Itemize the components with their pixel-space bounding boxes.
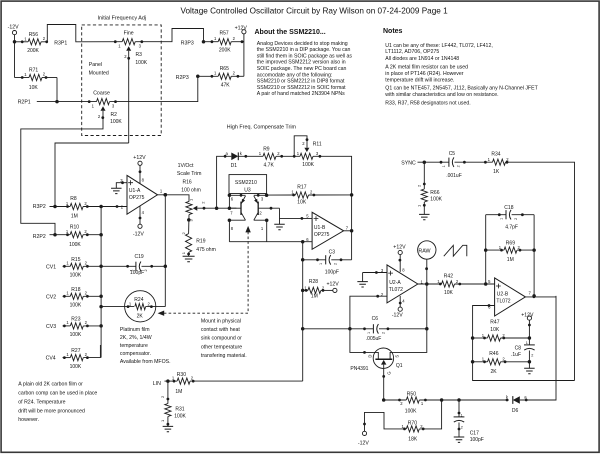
svg-text:contact with heat: contact with heat: [201, 327, 240, 333]
svg-text:1M: 1M: [71, 214, 78, 220]
op-amp U2-B TL072: [495, 278, 526, 316]
svg-text:drift will be more pronounced: drift will be more pronounced: [18, 408, 85, 414]
svg-text:R15: R15: [71, 257, 80, 263]
svg-text:the SSM2210 in a DIP package.: the SSM2210 in a DIP package. You can: [257, 47, 351, 53]
svg-text:R71: R71: [29, 68, 38, 74]
svg-text:SSM2210: SSM2210: [235, 180, 257, 186]
svg-text:18K: 18K: [408, 437, 418, 443]
svg-text:R27: R27: [71, 348, 80, 354]
svg-text:R46: R46: [489, 351, 498, 357]
svg-text:SSM2210 or SSM2212 in SOIC for: SSM2210 or SSM2212 in SOIC format: [257, 85, 346, 91]
wire U1-A pin3 to ground: [116, 183, 127, 189]
wire Fine wiper to R3P2: [55, 143, 129, 207]
svg-text:C19: C19: [135, 254, 144, 260]
svg-text:4.7K: 4.7K: [264, 163, 275, 169]
output node vertical / Q1 source: [394, 259, 427, 352]
svg-text:100K: 100K: [405, 408, 417, 414]
wire R16 wiper row: [197, 207, 236, 209]
svg-text:4.7pF: 4.7pF: [505, 224, 518, 230]
svg-text:Available from MFOS.: Available from MFOS.: [120, 359, 171, 365]
svg-text:CV3: CV3: [46, 324, 56, 330]
svg-text:1: 1: [367, 332, 371, 334]
op-amp U1-A OP275: [127, 175, 158, 214]
wire R2P3 down to Coarse pin3: [110, 76, 198, 101]
svg-text:Mounted: Mounted: [89, 70, 109, 76]
svg-text:CV2: CV2: [46, 294, 56, 300]
transistor pair U3 SSM2210: [229, 175, 267, 194]
svg-text:+12V: +12V: [393, 245, 406, 251]
svg-text:the improved SSM2212 version a: the improved SSM2212 version also in: [257, 60, 346, 66]
wire U2-B pin6 loop: [473, 306, 575, 381]
svg-text:.1uF: .1uF: [511, 352, 521, 358]
svg-text:still find them in SOIC packag: still find them in SOIC package as well …: [257, 53, 353, 59]
svg-text:Scale Trim: Scale Trim: [177, 171, 202, 177]
wire Fine pin3 jump over R3P3 label: [135, 29, 203, 42]
wire U1-B output: [344, 230, 352, 232]
svg-text:100K: 100K: [174, 414, 186, 420]
svg-text:R2P2: R2P2: [33, 234, 46, 240]
svg-text:All diodes are 1N914 or 1N4148: All diodes are 1N914 or 1N4148: [385, 56, 459, 62]
ground below R66: [419, 214, 430, 219]
svg-text:100pF: 100pF: [470, 437, 484, 443]
svg-text:CV1: CV1: [46, 264, 56, 270]
svg-text:U2-A: U2-A: [389, 280, 401, 286]
svg-text:100 ohm: 100 ohm: [181, 187, 200, 193]
svg-text:1V/Oct: 1V/Oct: [178, 163, 194, 169]
wire U3 emitters to U1-B pin6: [229, 241, 312, 243]
svg-text:1: 1: [319, 263, 323, 265]
svg-text:2: 2: [457, 165, 461, 167]
sawtooth waveform symbol: [444, 245, 467, 256]
wire U2-A output node: [418, 283, 442, 285]
svg-text:R2P3: R2P3: [176, 75, 189, 81]
ground at U2-A pin3: [357, 282, 368, 287]
svg-text:-12V: -12V: [8, 25, 19, 31]
svg-text:10K: 10K: [29, 85, 39, 91]
svg-text:1: 1: [129, 269, 133, 271]
svg-text:R42: R42: [444, 274, 453, 280]
wire Coarse wiper to R2P2: [21, 111, 103, 235]
svg-text:Voltage Controlled Oscillator: Voltage Controlled Oscillator Circuit by…: [181, 7, 449, 16]
wire -12V rail down: [14, 35, 16, 78]
svg-text:R19: R19: [196, 239, 205, 245]
op-amp U1-B OP275: [312, 212, 344, 249]
svg-text:R16: R16: [183, 180, 192, 186]
svg-text:D: D: [368, 355, 373, 358]
svg-text:OP275: OP275: [314, 232, 330, 238]
transistor Q1 PN4391 JFET: [373, 348, 393, 368]
svg-text:100K: 100K: [69, 242, 81, 248]
svg-text:1K: 1K: [493, 169, 500, 175]
svg-text:R23: R23: [71, 316, 80, 322]
svg-text:-12V: -12V: [392, 313, 403, 319]
svg-text:R31: R31: [175, 407, 184, 413]
svg-text:1M: 1M: [175, 389, 182, 395]
wire U1-B inverting node vertical: [302, 242, 304, 381]
svg-text:U3: U3: [244, 188, 251, 194]
svg-text:2K, 2%, 1/4W: 2K, 2%, 1/4W: [120, 335, 152, 341]
svg-text:compensator.: compensator.: [120, 351, 151, 357]
svg-text:R9: R9: [263, 147, 270, 153]
svg-text:of R24. Temperature: of R24. Temperature: [18, 399, 65, 405]
svg-text:47K: 47K: [221, 82, 231, 88]
svg-text:About the SSM2210...: About the SSM2210...: [255, 29, 326, 36]
svg-text:U1 can be any of these: LF442,: U1 can be any of these: LF442, TL072, LF…: [385, 43, 492, 49]
svg-text:sink compound or: sink compound or: [201, 336, 242, 342]
wire R16 wiper up to D1: [217, 156, 232, 208]
svg-text:10K: 10K: [490, 327, 500, 333]
wire R16 to R19: [188, 215, 190, 234]
svg-text:R18: R18: [71, 287, 80, 293]
wire C18/R69 box sides: [485, 215, 487, 284]
svg-text:Coarse: Coarse: [93, 90, 110, 96]
wire U1-A output: [158, 195, 190, 202]
wire U2-A pin3 to ground: [363, 272, 387, 274]
svg-text:100K: 100K: [302, 162, 314, 168]
svg-text:2: 2: [531, 353, 533, 357]
svg-text:-12V: -12V: [358, 440, 369, 446]
svg-text:R17: R17: [297, 185, 306, 191]
svg-text:C6: C6: [372, 316, 379, 322]
svg-text:High Freq. Compensate Trim: High Freq. Compensate Trim: [227, 125, 297, 131]
svg-text:D1: D1: [231, 163, 238, 169]
svg-text:A plain old 2K carbon film or: A plain old 2K carbon film or: [18, 382, 83, 388]
op-amp U2-A TL072: [387, 265, 418, 303]
svg-text:C17: C17: [470, 430, 479, 436]
wire U1-B pin5 to ground: [280, 217, 313, 219]
svg-text:1: 1: [442, 165, 446, 167]
svg-text:A 2K metal film resistor can b: A 2K metal film resistor can be used: [385, 65, 468, 71]
svg-text:1: 1: [461, 413, 463, 417]
svg-text:A pair of hand matched 2N3904: A pair of hand matched 2N3904 NPNs: [257, 91, 345, 97]
svg-text:200K: 200K: [219, 47, 231, 53]
svg-text:2: 2: [514, 218, 518, 220]
svg-text:-12V: -12V: [133, 232, 144, 238]
svg-text:+12V: +12V: [133, 155, 146, 161]
svg-text:C3: C3: [329, 250, 336, 256]
svg-text:R8: R8: [70, 196, 77, 202]
svg-text:C5: C5: [449, 151, 456, 157]
wire Q1 gate down: [384, 365, 407, 400]
svg-text:Fine: Fine: [124, 31, 134, 37]
svg-text:R3P3: R3P3: [181, 40, 194, 46]
svg-text:R34: R34: [491, 152, 500, 158]
svg-text:R3P1: R3P1: [54, 40, 67, 46]
ground at U3 pin2 / U1-B pin5: [279, 208, 281, 224]
svg-text:SYNC: SYNC: [401, 160, 416, 166]
svg-text:10K: 10K: [444, 290, 454, 296]
svg-text:RAW: RAW: [418, 248, 430, 254]
ground at U1-A pin3: [111, 188, 122, 193]
svg-text:1: 1: [499, 218, 503, 220]
svg-text:R11: R11: [313, 142, 322, 148]
svg-text:SSM2210 or SSM2212 in DIP8 for: SSM2210 or SSM2212 in DIP8 format: [257, 79, 345, 85]
svg-text:100K: 100K: [430, 196, 442, 202]
svg-text:accomodate any of the followin: accomodate any of the following:: [257, 72, 333, 78]
svg-text:2K: 2K: [491, 369, 498, 375]
svg-text:R47: R47: [490, 320, 499, 326]
svg-text:in place of PT146 (R24). Howev: in place of PT146 (R24). However: [385, 71, 463, 77]
svg-text:100K: 100K: [135, 60, 147, 66]
svg-text:Q1 can be NTE457, 2N5457, J112: Q1 can be NTE457, 2N5457, J112, Basicall…: [385, 86, 538, 92]
svg-text:R66: R66: [430, 190, 439, 196]
wire R11 to output node vertical: [313, 156, 352, 259]
svg-text:LT1112, AD706, OP275: LT1112, AD706, OP275: [385, 49, 439, 55]
svg-text:R57: R57: [220, 31, 229, 37]
svg-text:Q1: Q1: [396, 363, 403, 369]
wire U2-A pin2 to Q1 drain: [350, 296, 387, 352]
svg-text:OP275: OP275: [129, 195, 145, 201]
svg-text:C8: C8: [515, 346, 522, 352]
svg-text:R69: R69: [506, 241, 515, 247]
svg-text:SOIC package. The new PC board: SOIC package. The new PC board can: [257, 66, 347, 72]
svg-text:2: 2: [381, 332, 385, 334]
wire C8/R46 to ground: [528, 362, 530, 369]
svg-text:2: 2: [144, 269, 148, 271]
dashed panel box: [82, 25, 162, 136]
svg-text:100K: 100K: [110, 119, 122, 125]
svg-text:U1-B: U1-B: [314, 225, 326, 231]
svg-text:G: G: [386, 371, 391, 374]
svg-text:.005uF: .005uF: [366, 336, 382, 342]
svg-text:100K: 100K: [70, 303, 82, 309]
svg-text:R3P2: R3P2: [33, 204, 46, 210]
wire U2-B output: [525, 296, 556, 298]
svg-text:D6: D6: [512, 408, 519, 414]
svg-text:+12V: +12V: [327, 282, 340, 288]
svg-text:475 ohm: 475 ohm: [196, 247, 215, 253]
svg-text:R65: R65: [220, 66, 229, 72]
svg-text:C18: C18: [504, 205, 513, 211]
svg-text:R3: R3: [136, 52, 143, 58]
svg-text:100K: 100K: [70, 273, 82, 279]
svg-text:R33, R37, R58 designators not: R33, R37, R58 designators not used.: [385, 101, 470, 107]
svg-text:PN4391: PN4391: [350, 366, 368, 372]
svg-text:.001uF: .001uF: [446, 173, 462, 179]
svg-text:however.: however.: [18, 417, 39, 423]
wire R71 to R2P1 row: [56, 78, 58, 102]
RAW output terminal: [418, 241, 436, 259]
svg-text:LIN: LIN: [153, 381, 161, 387]
svg-text:Initial Frequency Adj: Initial Frequency Adj: [98, 16, 147, 22]
wire jump over R3P1 label: [47, 25, 122, 42]
svg-text:U1-A: U1-A: [129, 188, 141, 194]
svg-text:Notes: Notes: [383, 28, 403, 35]
svg-text:Mount in physical: Mount in physical: [201, 318, 241, 324]
ground below C8: [524, 368, 535, 373]
svg-text:Panel: Panel: [89, 62, 102, 68]
svg-text:10K: 10K: [297, 200, 307, 206]
svg-text:R2: R2: [111, 112, 118, 118]
svg-text:temperature: temperature: [120, 343, 148, 349]
wire R11 wiper strap to pin1: [294, 136, 307, 157]
svg-text:1: 1: [526, 341, 528, 345]
resistor R24 2K platinum tempco in circle: [125, 291, 156, 322]
wire U1-A feedback vertical: [164, 195, 166, 307]
svg-text:R28: R28: [309, 279, 318, 285]
svg-text:1M: 1M: [507, 257, 514, 263]
svg-text:transfering material.: transfering material.: [201, 353, 247, 359]
svg-text:with similar characteristics a: with similar characteristics and low on …: [385, 92, 498, 98]
svg-text:R10: R10: [70, 225, 79, 231]
svg-text:temperature drift will increas: temperature drift will increase.: [385, 77, 454, 83]
svg-text:100K: 100K: [70, 332, 82, 338]
svg-text:R56: R56: [29, 32, 38, 38]
svg-text:CV4: CV4: [46, 356, 56, 362]
svg-text:other temperature: other temperature: [201, 344, 242, 350]
ground below R19: [183, 256, 195, 261]
svg-text:R2P1: R2P1: [18, 100, 31, 106]
summing node vertical wire: [100, 207, 102, 358]
svg-text:1M: 1M: [311, 294, 318, 300]
ground below R31: [163, 426, 174, 431]
svg-text:TL072: TL072: [496, 299, 510, 305]
svg-text:2: 2: [334, 263, 338, 265]
svg-text:200K: 200K: [27, 48, 39, 54]
svg-text:U2-B: U2-B: [497, 292, 509, 298]
svg-text:Analog Devices decided to stop: Analog Devices decided to stop making: [257, 41, 348, 47]
svg-text:S: S: [395, 355, 400, 358]
svg-text:2K: 2K: [137, 314, 144, 320]
svg-text:Platinum film: Platinum film: [120, 327, 150, 333]
svg-text:100pF: 100pF: [325, 270, 339, 276]
ground below C17: [454, 437, 465, 442]
dashed arrow to R24 and U3: [164, 232, 248, 314]
svg-text:carbon comp can be used in pla: carbon comp can be used in place: [18, 391, 97, 397]
svg-text:TL072: TL072: [389, 287, 403, 293]
svg-text:100K: 100K: [70, 364, 82, 370]
svg-text:2: 2: [461, 426, 463, 430]
